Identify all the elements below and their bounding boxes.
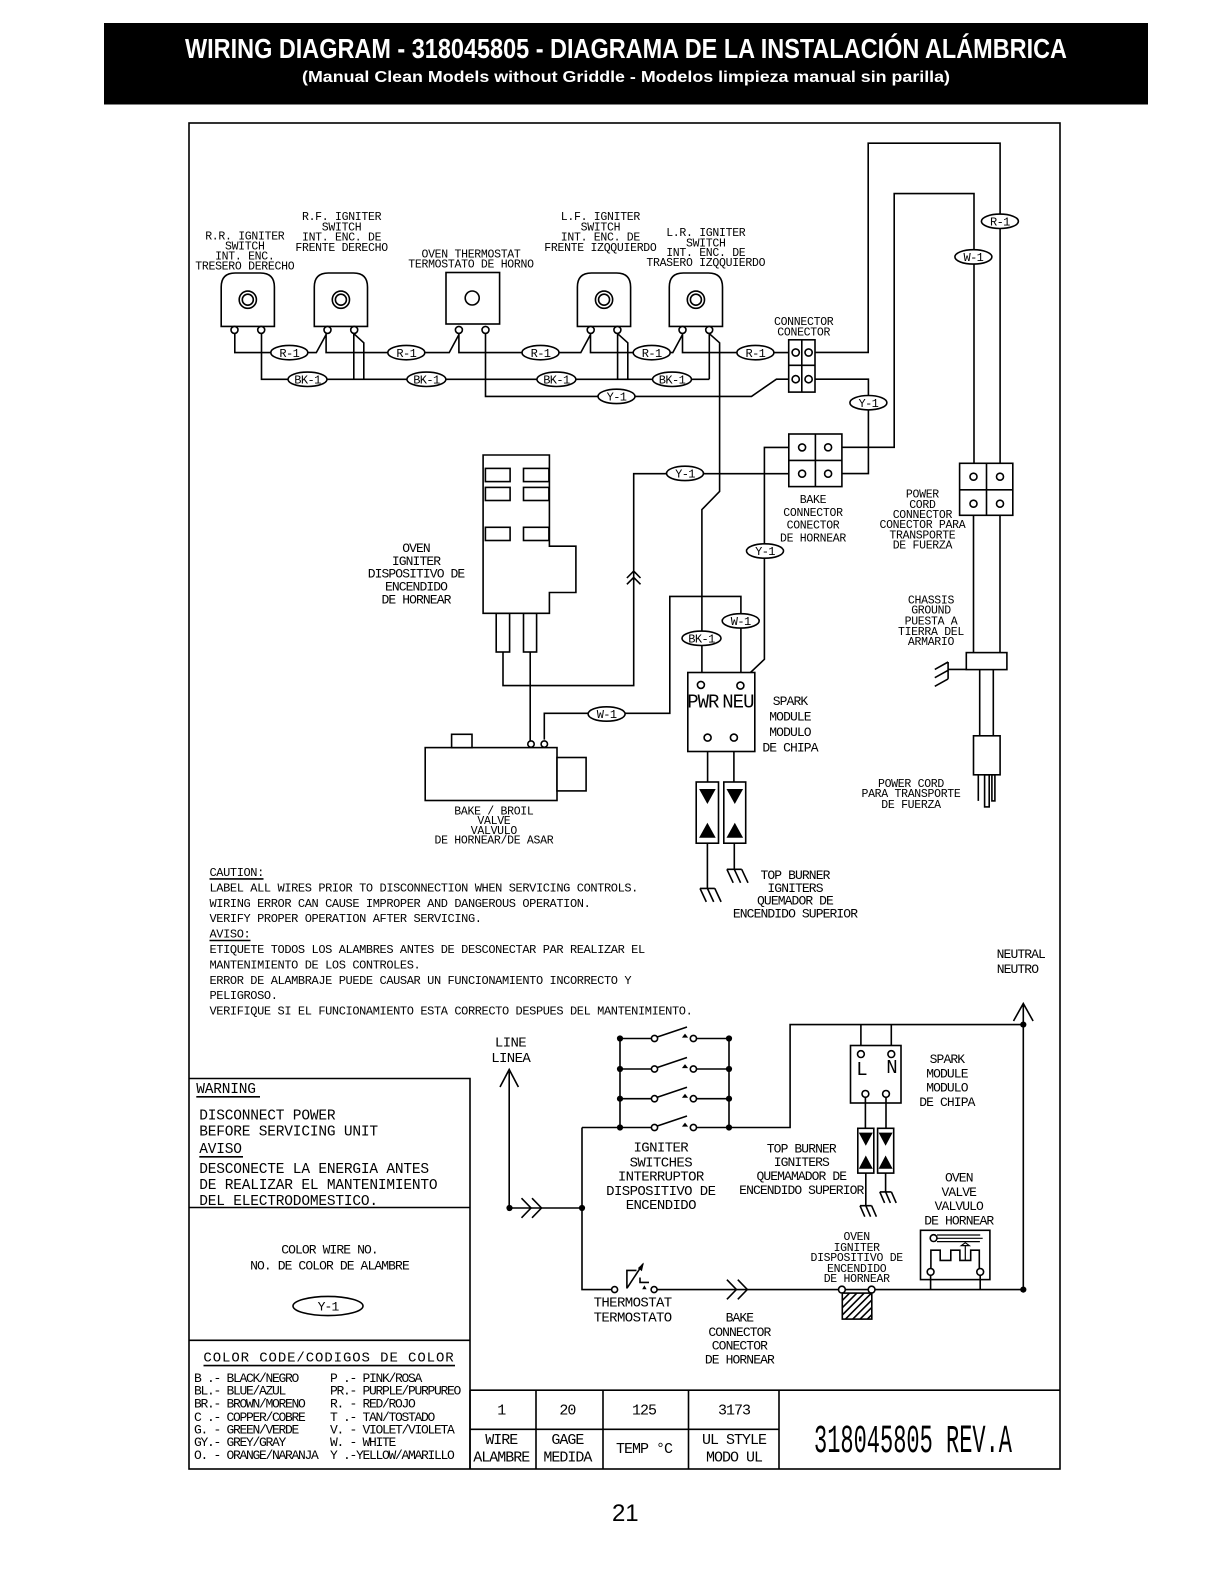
svg-text:LINEA: LINEA [491, 1051, 531, 1067]
wire continuation chevrons on line feed [522, 1198, 542, 1218]
bake broil valve top bump [452, 734, 472, 747]
junction dot line/arrow [506, 1205, 512, 1211]
svg-text:BK-1: BK-1 [659, 374, 686, 388]
bake broil valve right attachment [557, 758, 586, 791]
svg-text:N: N [886, 1057, 896, 1079]
thermostat symbol (bottom) [612, 1287, 618, 1293]
svg-text:PWR: PWR [687, 691, 719, 713]
top burner igniter 2 (top) [724, 782, 746, 843]
svg-text:NEUTRAL: NEUTRAL [997, 947, 1045, 962]
svg-text:PELIGROSO.: PELIGROSO. [210, 989, 278, 1003]
neutral wire with arrow [1014, 1004, 1034, 1290]
wire bake connector to power cord connector (W-1 loop) [832, 194, 974, 474]
spark module pins PWR NEU [697, 681, 704, 688]
svg-text:TRASERO IZQQUIERDO: TRASERO IZQQUIERDO [646, 257, 765, 270]
svg-text:MODO UL: MODO UL [706, 1449, 763, 1466]
oven igniter terminals (bottom) [839, 1286, 846, 1293]
wire BK-1 rail (igniter switches return daisy chain) [262, 334, 710, 380]
top burner igniter 2 (bottom) [878, 1128, 894, 1173]
svg-text:Y .-YELLOW/AMARILLO: Y .-YELLOW/AMARILLO [330, 1448, 455, 1463]
igniter switch row 4 [620, 1127, 729, 1129]
svg-text:R-1: R-1 [531, 347, 551, 361]
oven valve solenoid [930, 1235, 937, 1242]
svg-text:DE FUERZA: DE FUERZA [893, 540, 953, 553]
L.F. (SW3) pins [587, 326, 594, 333]
bake connector 2x2 [789, 434, 842, 487]
connector CONNECTOR/CONECTOR 2x2 [789, 340, 815, 392]
bus junction dots [617, 1066, 623, 1072]
svg-text:VALVULO: VALVULO [935, 1199, 984, 1214]
wire R-1 rail (igniter switches power daisy chain) [235, 334, 792, 353]
svg-text:MODULO: MODULO [769, 725, 812, 740]
igniter switch L.R. (SW4) [669, 273, 722, 326]
svg-text:21: 21 [612, 1500, 639, 1527]
warning box frame [189, 1079, 470, 1470]
svg-text:TERMOSTATO: TERMOSTATO [594, 1310, 672, 1326]
svg-text:DEL ELECTRODOMESTICO.: DEL ELECTRODOMESTICO. [199, 1194, 378, 1210]
wire sw4 right pin to spark module PWR (BK-1) [702, 334, 720, 681]
svg-text:NEU: NEU [722, 691, 754, 713]
diagram outer border [189, 123, 1060, 1469]
svg-text:Y-1: Y-1 [318, 1300, 340, 1315]
svg-text:SPARK: SPARK [930, 1052, 966, 1067]
chassis ground symbol [935, 662, 967, 686]
svg-text:FRENTE IZQQUIERDO: FRENTE IZQQUIERDO [544, 242, 657, 255]
oven igniter body [483, 455, 576, 613]
igniter switch R.F. (SW2) [314, 273, 367, 326]
wire label BK-1 [653, 372, 692, 386]
igniter switch row 2 [620, 1068, 729, 1070]
svg-text:ERROR DE ALAMBRAJE PUEDE CAUSA: ERROR DE ALAMBRAJE PUEDE CAUSAR UN FUNCI… [210, 974, 632, 988]
wire label R-1 [737, 345, 774, 359]
svg-text:WIRE: WIRE [485, 1432, 518, 1449]
svg-text:L: L [856, 1059, 867, 1081]
igniter switch row 3 [620, 1098, 729, 1100]
svg-text:VALVE: VALVE [942, 1185, 978, 1200]
igniter electrode 2 (top) [727, 869, 748, 883]
svg-text:AVISO: AVISO [199, 1142, 242, 1158]
spark module box (bottom) [851, 1046, 902, 1104]
igniter switch row 1 [620, 1038, 729, 1040]
top burner igniter 1 (top) [696, 782, 718, 843]
junction dot neutral top [1020, 1022, 1026, 1028]
svg-text:DE HORNEAR: DE HORNEAR [780, 533, 846, 546]
wire label Y-1 [667, 466, 704, 480]
bus junction dots [617, 1124, 623, 1130]
wire label R-1 [981, 214, 1018, 228]
svg-text:WIRING ERROR CAN CAUSE IMPROPE: WIRING ERROR CAN CAUSE IMPROPER AND DANG… [210, 897, 591, 911]
igniter electrode 1 (bottom) [860, 1206, 876, 1217]
oven valve box (bottom) [921, 1230, 990, 1279]
junction dot bottom right [1020, 1287, 1026, 1293]
svg-text:Y-1: Y-1 [607, 391, 627, 405]
svg-text:R-1: R-1 [396, 347, 416, 361]
svg-text:CONNECTOR: CONNECTOR [783, 507, 843, 520]
bake connector pins [799, 444, 806, 451]
svg-text:DE HORNEAR: DE HORNEAR [924, 1214, 994, 1229]
svg-text:3173: 3173 [718, 1402, 751, 1419]
svg-text:W-1: W-1 [597, 708, 617, 722]
svg-text:MODULE: MODULE [926, 1066, 969, 1081]
R.R. (SW1) pins [231, 326, 238, 333]
svg-text:DE HORNEAR: DE HORNEAR [381, 593, 451, 608]
svg-text:DE HORNEAR: DE HORNEAR [824, 1273, 890, 1286]
svg-text:ENCENDIDO SUPERIOR: ENCENDIDO SUPERIOR [733, 907, 858, 922]
specification table grid [470, 1390, 1060, 1469]
wire connector to bake connector (Y-1) [812, 379, 868, 473]
svg-text:MEDIDA: MEDIDA [543, 1449, 592, 1466]
svg-text:Y-1: Y-1 [675, 468, 695, 482]
svg-text:ENCENDIDO SUPERIOR: ENCENDIDO SUPERIOR [739, 1183, 864, 1198]
igniter electrode 1 (top) [700, 888, 721, 902]
svg-text:O. - ORANGE/NARANJA: O. - ORANGE/NARANJA [194, 1448, 319, 1463]
power cord connector pins [970, 473, 977, 480]
wire label Y-1 [850, 396, 887, 410]
color wire sample label Y-1 [293, 1296, 363, 1315]
svg-text:OVEN: OVEN [945, 1171, 973, 1186]
spark module box (top) [688, 673, 755, 752]
svg-text:COLOR CODE/CODIGOS DE COLOR: COLOR CODE/CODIGOS DE COLOR [203, 1351, 454, 1367]
svg-text:BK-1: BK-1 [543, 374, 570, 388]
svg-text:SPARK: SPARK [773, 694, 809, 709]
L.R. (SW4) pins [679, 326, 686, 333]
wire label BK-1 [407, 372, 446, 386]
wire label Y-1 [598, 389, 635, 403]
header title bar [104, 23, 1148, 105]
wire oven igniter leg2 to bake broil valve [529, 652, 531, 741]
svg-text:BAKE: BAKE [726, 1311, 755, 1326]
bake broil valve pins [528, 741, 534, 747]
svg-text:R-1: R-1 [990, 216, 1010, 230]
svg-text:LABEL ALL WIRES PRIOR TO DISCO: LABEL ALL WIRES PRIOR TO DISCONNECTION W… [210, 881, 638, 895]
svg-text:GAGE: GAGE [551, 1432, 584, 1449]
svg-text:BK-1: BK-1 [688, 633, 715, 647]
junction dot line feed [579, 1205, 585, 1211]
wire label BK-1 [288, 372, 327, 386]
svg-text:DE REALIZAR EL MANTENIMIENTO: DE REALIZAR EL MANTENIMIENTO [199, 1178, 437, 1194]
svg-text:CONECTOR: CONECTOR [712, 1339, 768, 1354]
svg-text:W-1: W-1 [731, 615, 751, 629]
wire oven valve pins to bottom wire [931, 1275, 981, 1289]
wire label W-1 [588, 707, 625, 721]
svg-text:DESCONECTE LA ENERGIA ANTES: DESCONECTE LA ENERGIA ANTES [199, 1162, 429, 1178]
power cord connector 2x2 [960, 463, 1013, 515]
svg-text:125: 125 [632, 1402, 657, 1419]
svg-text:(Manual Clean Models without G: (Manual Clean Models without Griddle - M… [302, 69, 950, 86]
bus junction dots [617, 1035, 623, 1041]
wire label BK-1 [537, 372, 576, 386]
wire bake broil valve to spark module NEU (W-1) [544, 596, 741, 739]
svg-text:NO. DE COLOR DE ALAMBRE: NO. DE COLOR DE ALAMBRE [250, 1259, 410, 1274]
svg-text:Y-1: Y-1 [858, 397, 878, 411]
svg-text:AVISO:: AVISO: [210, 928, 251, 942]
igniter switch L.F. (SW3) [577, 273, 630, 326]
svg-text:R-1: R-1 [642, 347, 662, 361]
svg-text:WIRING DIAGRAM - 318045805 - D: WIRING DIAGRAM - 318045805 - DIAGRAMA DE… [185, 33, 1067, 64]
svg-text:1: 1 [497, 1402, 506, 1419]
connector pins [792, 349, 799, 356]
oven valve bimetal [931, 1250, 979, 1268]
svg-text:ENCENDIDO: ENCENDIDO [626, 1198, 696, 1214]
wire connector to power cord connector (R-1 loop) [812, 143, 1000, 473]
svg-text:NEUTRO: NEUTRO [997, 962, 1040, 977]
svg-text:BAKE: BAKE [800, 494, 827, 507]
wire igniters to electrodes (bottom) [866, 1173, 886, 1205]
power cord prongs [977, 775, 979, 801]
wire bake connector BL to oven igniter (Y-1) [503, 474, 799, 686]
power cord cable [980, 670, 994, 736]
svg-text:W-1: W-1 [963, 251, 983, 265]
svg-text:FRENTE DERECHO: FRENTE DERECHO [295, 242, 388, 255]
bus junction dots [617, 1096, 623, 1102]
svg-text:R-1: R-1 [745, 347, 765, 361]
igniter switch R.R. (SW1) [221, 273, 274, 326]
svg-text:TRESERO DERECHO: TRESERO DERECHO [195, 261, 294, 274]
svg-text:BEFORE SERVICING UNIT: BEFORE SERVICING UNIT [199, 1125, 378, 1141]
igniter electrode 2 (bottom) [880, 1192, 896, 1203]
svg-text:CONECTOR: CONECTOR [787, 520, 840, 533]
svg-text:IGNITERS: IGNITERS [774, 1155, 830, 1170]
svg-text:CAUTION:: CAUTION: [210, 866, 264, 880]
line wire with arrow [500, 1070, 518, 1209]
svg-text:TEMP °C: TEMP °C [616, 1441, 673, 1458]
svg-text:THERMOSTAT: THERMOSTAT [594, 1295, 672, 1311]
svg-text:R-1: R-1 [279, 347, 299, 361]
wire thermostat to oven valve and neutral [657, 1289, 1023, 1291]
svg-text:ALAMBRE: ALAMBRE [473, 1449, 530, 1466]
wire label R-1 [633, 345, 670, 359]
svg-text:VERIFY PROPER OPERATION AFTER: VERIFY PROPER OPERATION AFTER SERVICING. [210, 912, 482, 926]
oven igniter legs [496, 613, 509, 652]
bake broil valve body [425, 748, 557, 801]
svg-text:MANTENIMIENTO DE LOS CONTROLES: MANTENIMIENTO DE LOS CONTROLES. [210, 958, 421, 972]
spark module pins L N [858, 1051, 865, 1058]
wire label BK-1 [682, 631, 721, 645]
igniter switch bank buses [582, 1039, 729, 1128]
power cord plug [974, 736, 1001, 775]
wire switch bank to spark module L and neutral rail [729, 1025, 1023, 1128]
wire bake connector TL to spark module NEU (Y-1) [740, 447, 798, 682]
oven thermostat body [446, 273, 500, 325]
svg-text:318045805 REV.A: 318045805 REV.A [814, 1420, 1012, 1465]
svg-text:CONECTOR: CONECTOR [777, 327, 830, 340]
wire continuation chevrons bake connector (bottom) [727, 1280, 747, 1300]
svg-text:DISCONNECT POWER: DISCONNECT POWER [199, 1108, 336, 1124]
svg-text:COLOR WIRE NO.: COLOR WIRE NO. [281, 1243, 378, 1258]
svg-text:LINE: LINE [495, 1036, 526, 1052]
svg-text:BK-1: BK-1 [413, 374, 440, 388]
wire spark module outputs to top burner igniters [708, 741, 734, 782]
chassis ground bracket [966, 653, 1007, 670]
wire label R-1 [522, 345, 559, 359]
wire line feed to switches and thermostat [510, 1128, 612, 1290]
oven thermostat pins [455, 326, 462, 333]
wire label W-1 [955, 250, 992, 264]
R.F. (SW2) pins [324, 326, 331, 333]
svg-text:ARMARIO: ARMARIO [908, 636, 955, 649]
svg-text:DE HORNEAR/DE ASAR: DE HORNEAR/DE ASAR [434, 835, 553, 848]
svg-text:WARNING: WARNING [196, 1082, 256, 1098]
top burner igniter 1 (bottom) [858, 1128, 874, 1173]
svg-text:BK-1: BK-1 [294, 374, 321, 388]
svg-text:IGNITER: IGNITER [633, 1141, 689, 1157]
wire top burner igniters to electrodes [707, 843, 734, 888]
svg-text:QUEMAMADOR DE: QUEMAMADOR DE [756, 1169, 847, 1184]
svg-text:DE HORNEAR: DE HORNEAR [705, 1353, 775, 1368]
svg-text:VERIFIQUE SI EL FUNCIONAMIENTO: VERIFIQUE SI EL FUNCIONAMIENTO ESTA CORR… [210, 1005, 693, 1019]
svg-text:DE CHIPA: DE CHIPA [919, 1095, 975, 1110]
svg-text:DE CHIPA: DE CHIPA [762, 741, 818, 756]
svg-text:MODULE: MODULE [769, 709, 812, 724]
svg-text:20: 20 [559, 1402, 576, 1419]
svg-text:UL STYLE: UL STYLE [702, 1432, 767, 1449]
wire label R-1 [271, 345, 308, 359]
wire label W-1 [722, 614, 759, 628]
wire continuation chevrons on oven igniter wire [627, 571, 641, 584]
oven igniter hatched element (bottom) [842, 1293, 872, 1319]
wire Y-1 thermostat to connector [486, 334, 793, 397]
svg-text:DE FUERZA: DE FUERZA [881, 799, 941, 812]
svg-text:Y-1: Y-1 [755, 545, 775, 559]
svg-text:MODULO: MODULO [926, 1081, 969, 1096]
wire spark module outputs (bottom) [865, 1097, 886, 1128]
oven valve pins [927, 1269, 934, 1276]
svg-text:ETIQUETE TODOS LOS ALAMBRES AN: ETIQUETE TODOS LOS ALAMBRES ANTES DE DES… [210, 943, 645, 957]
wire label R-1 [388, 345, 425, 359]
svg-text:TERMOSTATO DE HORNO: TERMOSTATO DE HORNO [408, 259, 534, 272]
wire label Y-1 [747, 544, 784, 558]
wire power cord connector to chassis ground bracket [974, 507, 1001, 652]
